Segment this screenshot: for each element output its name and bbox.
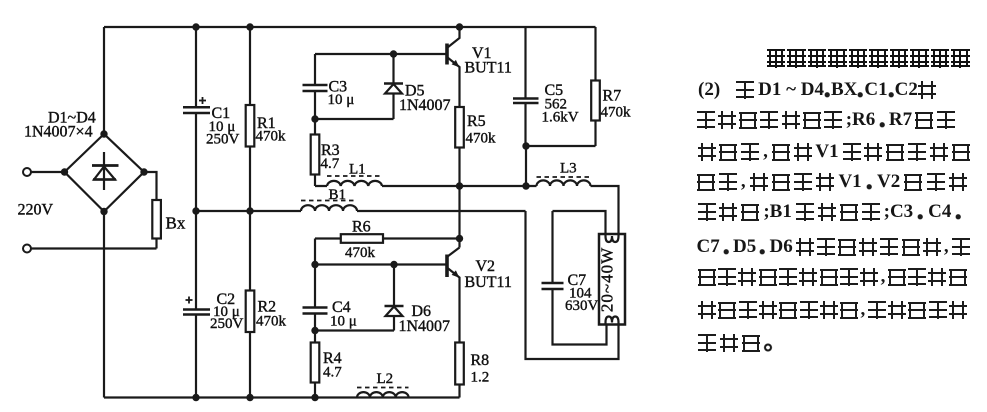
body line 7 <box>698 268 967 287</box>
svg-text:1.2: 1.2 <box>471 370 490 386</box>
transistor V1 <box>447 27 460 107</box>
svg-text:10 μ: 10 μ <box>330 314 357 330</box>
wire R1 R2 rail <box>249 27 251 398</box>
body line 1 <box>698 81 934 100</box>
terminal input top <box>23 168 31 176</box>
svg-text:470k: 470k <box>345 245 376 261</box>
svg-text:4.7: 4.7 <box>323 365 342 381</box>
wire mid rail segments (C1 C2 gaps) <box>195 27 197 398</box>
wire left vertical from bridge top to rail <box>103 27 105 134</box>
body line 3 <box>698 143 970 162</box>
wire L1 line <box>315 185 460 187</box>
svg-text:470k: 470k <box>466 131 497 147</box>
choke coil B1 <box>301 205 357 211</box>
wire L3 line <box>460 186 619 234</box>
inductor L3 <box>537 180 591 186</box>
transistor V2 <box>447 248 460 343</box>
fuse Bx <box>152 200 161 239</box>
diode D5 <box>384 54 403 119</box>
svg-text:250V: 250V <box>210 316 244 332</box>
inductor L2 <box>357 392 409 397</box>
svg-text:BUT11: BUT11 <box>465 60 512 77</box>
svg-text:220V: 220V <box>18 202 54 219</box>
wire half-bridge rail <box>458 186 460 248</box>
resistor R1 <box>246 105 255 147</box>
wire V1 base line <box>315 53 446 55</box>
L1 core dashed <box>327 175 382 177</box>
resistor R6 <box>341 234 383 243</box>
resistor R8 <box>455 343 464 385</box>
lamp filament bottom <box>606 317 619 325</box>
svg-text:L1: L1 <box>349 162 366 178</box>
svg-text:10 μ: 10 μ <box>328 92 355 108</box>
svg-text:L2: L2 <box>377 371 394 387</box>
capacitor C3 branch <box>314 54 316 119</box>
capacitor C4 branch <box>314 265 316 331</box>
svg-text:BUT11: BUT11 <box>465 274 512 291</box>
title line <box>767 49 970 68</box>
svg-text:B1: B1 <box>329 187 347 203</box>
terminal input bottom <box>23 245 31 253</box>
svg-text:R7: R7 <box>603 88 622 105</box>
wire terminal to bridge left <box>31 171 65 173</box>
resistor R5 <box>455 107 464 148</box>
C1 plus sign <box>199 97 206 104</box>
inductor L1 <box>327 181 382 186</box>
wire C3 bottom to D5 <box>315 118 394 120</box>
svg-text:1N4007×4: 1N4007×4 <box>24 124 93 141</box>
svg-text:1N4007: 1N4007 <box>399 97 451 114</box>
wire outer lamp loop <box>526 211 619 359</box>
body line 9 <box>698 334 818 353</box>
body line 2 <box>697 111 955 130</box>
wire C4 bottom to D6 <box>315 329 394 331</box>
wire bridge bottom to bottom rail <box>103 212 105 398</box>
svg-text:1.6kV: 1.6kV <box>542 110 579 126</box>
body line 8 <box>698 301 967 320</box>
svg-text:470k: 470k <box>601 105 632 121</box>
wire R6 line <box>315 239 460 265</box>
resistor R7 <box>594 27 596 146</box>
svg-text:250V: 250V <box>206 132 240 148</box>
wire C5 R7 bottom join <box>526 146 596 186</box>
B1 core dashed <box>301 200 357 202</box>
svg-text:L3: L3 <box>560 161 577 177</box>
svg-text:R6: R6 <box>352 219 371 236</box>
svg-text:470k: 470k <box>256 314 287 330</box>
wire C7 branch top <box>553 211 606 283</box>
resistor R4 <box>314 331 316 398</box>
L3 core dashed <box>537 176 591 178</box>
C2 plus sign <box>186 297 193 304</box>
svg-text:470k: 470k <box>256 129 287 145</box>
wire V2 base line <box>315 263 446 265</box>
capacitor C2 <box>183 310 210 315</box>
diode D6 <box>385 265 404 331</box>
wire terminal2 to Bx bottom <box>31 247 157 249</box>
body line 4 <box>697 173 967 192</box>
capacitor C1 <box>183 107 210 113</box>
svg-text:1N4007: 1N4007 <box>399 318 451 335</box>
wire bottom rail <box>104 396 460 398</box>
svg-text:V2: V2 <box>476 258 496 275</box>
wire B1 line <box>196 210 526 212</box>
body line 6 <box>697 238 970 257</box>
wire C7 branch bottom <box>553 289 607 345</box>
svg-text:Bx: Bx <box>166 214 186 233</box>
wire bridge right to Bx <box>144 172 157 249</box>
lamp filament top <box>606 234 619 242</box>
L2 core dashed <box>357 387 409 389</box>
svg-text:4.7: 4.7 <box>321 156 340 172</box>
diode symbol inside bridge <box>92 152 119 190</box>
resistor R3 <box>314 119 316 186</box>
body line 5 <box>698 203 963 222</box>
capacitor C7 <box>542 283 564 289</box>
bridge rectifier D1-D4 diamond <box>65 134 145 212</box>
resistor R2 <box>246 291 255 333</box>
svg-text:20~40W: 20~40W <box>598 247 617 312</box>
svg-text:630V: 630V <box>565 298 599 314</box>
svg-text:R8: R8 <box>471 352 490 369</box>
fluorescent lamp tube 20-40W <box>599 234 625 325</box>
svg-text:R5: R5 <box>467 113 486 130</box>
wire top positive rail <box>104 26 596 28</box>
capacitor C5 <box>524 27 526 146</box>
